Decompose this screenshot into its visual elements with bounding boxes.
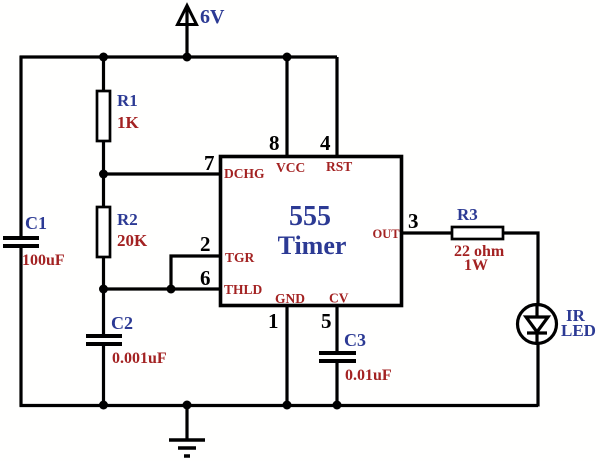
capacitor C2 (86, 313, 167, 367)
wire pin5 CV (335, 305, 338, 353)
svg-text:Timer: Timer (278, 231, 347, 260)
wire node A to R2 (102, 174, 105, 208)
wire pin8 VCC (285, 57, 288, 157)
svg-text:6: 6 (200, 266, 211, 290)
wire top rail (20, 55, 337, 58)
node dot R1 R2 pin7 (99, 170, 108, 179)
wire C3 to bottom rail (335, 361, 338, 405)
svg-text:20K: 20K (117, 231, 148, 250)
wire R3 to LED corner (503, 233, 538, 305)
svg-text:1K: 1K (117, 113, 140, 132)
svg-text:TGR: TGR (225, 250, 255, 265)
wire pin4 RST (335, 57, 338, 157)
svg-text:OUT: OUT (373, 227, 401, 241)
node dot top R1 (99, 53, 108, 62)
node dot top pin8 (283, 53, 292, 62)
wire bottom rail (20, 404, 539, 407)
svg-text:3: 3 (408, 209, 419, 233)
svg-text:2: 2 (200, 232, 211, 256)
resistor R2 (97, 207, 148, 257)
ground (169, 405, 205, 456)
wire left rail upper (19, 56, 22, 238)
svg-text:0.01uF: 0.01uF (345, 367, 392, 384)
diode D1 IR LED (518, 305, 596, 345)
svg-text:C2: C2 (111, 313, 133, 333)
wire pin1 GND (285, 305, 288, 405)
node dot bottom pin1 (283, 401, 292, 410)
svg-text:CV: CV (329, 291, 349, 306)
svg-text:VCC: VCC (276, 160, 305, 175)
op-amp U1 555 timer box (221, 157, 402, 306)
svg-text:1: 1 (268, 309, 279, 333)
svg-text:8: 8 (269, 131, 280, 155)
svg-text:C1: C1 (25, 213, 47, 233)
svg-text:GND: GND (275, 291, 305, 306)
svg-text:7: 7 (204, 151, 215, 175)
wire R1 to node A (102, 141, 105, 174)
capacitor C3 (319, 330, 392, 384)
wire C2 to bottom rail (102, 344, 105, 405)
node dot R2 C2 pin6 (99, 285, 108, 294)
svg-text:4: 4 (320, 131, 331, 155)
svg-text:100uF: 100uF (22, 252, 65, 269)
wire pin3 OUT (402, 231, 453, 234)
svg-text:6V: 6V (200, 6, 225, 28)
svg-text:1W: 1W (464, 257, 488, 274)
svg-text:LED: LED (561, 321, 596, 340)
power 6V supply arrow (178, 6, 226, 58)
wire R1 top lead (102, 57, 105, 92)
node dot TGR THLD (167, 285, 176, 294)
wire left rail lower (19, 246, 22, 407)
svg-text:R1: R1 (117, 91, 138, 110)
wire pin2 TGR (171, 256, 220, 289)
wire pin6 THLD (104, 287, 221, 290)
svg-text:0.001uF: 0.001uF (112, 350, 167, 367)
svg-text:R2: R2 (117, 210, 138, 229)
resistor R3 (452, 205, 505, 274)
svg-text:THLD: THLD (224, 282, 263, 297)
wire R2 to node B (102, 257, 105, 289)
svg-text:DCHG: DCHG (224, 166, 265, 181)
svg-text:R3: R3 (457, 205, 478, 224)
svg-text:555: 555 (289, 201, 331, 232)
node dot top 6V (183, 53, 192, 62)
wire LED to bottom rail (536, 343, 539, 407)
node dot bottom C3 (333, 401, 342, 410)
node dot bottom C2 (99, 401, 108, 410)
node dot bottom ground (183, 401, 192, 410)
wire pin7 DCHG (104, 172, 221, 175)
resistor R1 (97, 91, 140, 141)
capacitor C1 (3, 213, 65, 269)
svg-text:C3: C3 (344, 330, 366, 350)
wire node B to C2 (102, 289, 105, 336)
svg-text:5: 5 (321, 309, 332, 333)
svg-text:RST: RST (326, 159, 352, 174)
